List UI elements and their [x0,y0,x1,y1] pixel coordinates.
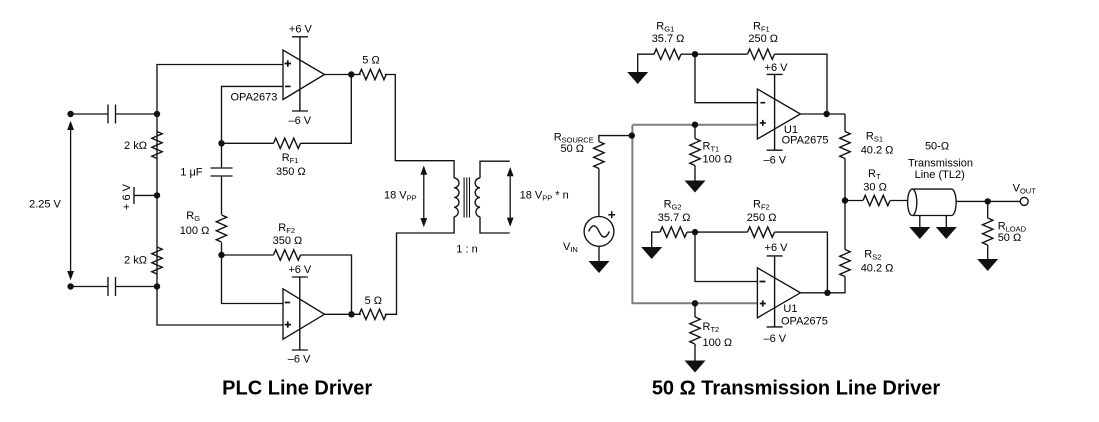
resistor RF2 wire right [695,232,827,293]
ground RLOAD [977,259,998,271]
node RSOURCE [629,132,635,138]
resistor RLOAD [983,201,993,259]
svg-text:PLC Line Driver: PLC Line Driver [222,377,372,399]
svg-text:–6 V: –6 V [288,353,311,365]
transformer T1 secondary winding [475,178,480,217]
wire minus input U1a [695,54,757,102]
resistor RT1 [690,125,700,181]
svg-text:18 VPP: 18 VPP [384,189,417,202]
wire output U1a [800,113,845,115]
svg-text:RF2: RF2 [278,222,295,235]
svg-text:VIN: VIN [563,241,578,254]
node RS1-RT [842,197,848,203]
ground RG2 [641,232,662,259]
supply tap +6V bar [134,187,157,204]
node output bottom [348,311,354,317]
op-amp OPA2673 top [283,37,325,111]
ground RG1 [627,54,654,84]
wire minus input top opamp [222,86,284,143]
op-amp U1 OPA2675 lower [757,256,800,327]
wire output node to feedback [325,74,361,76]
svg-text:50 Ω: 50 Ω [998,232,1022,244]
svg-text:RG: RG [186,210,200,223]
annotation arrow 2.25V [67,121,74,280]
svg-text:RG1: RG1 [656,21,674,34]
svg-text:250 Ω: 250 Ω [747,212,777,224]
node dots [67,51,991,317]
wire secondary top [480,161,510,178]
resistor 2k-top [152,132,162,159]
wire cap to bus [116,113,158,115]
svg-text:1 μF: 1 μF [180,167,203,179]
wire plus input U1a [632,124,757,126]
source VIN [584,211,615,246]
op-amp U1 OPA2675 upper [757,74,800,150]
wire RG to node [221,243,223,256]
node +6V tap [154,192,160,198]
svg-text:+6 V: +6 V [765,242,789,254]
wire 5ohm to transformer primary bottom [385,217,454,314]
resistor RT2 [690,303,700,360]
svg-text:RT2: RT2 [703,321,720,334]
ground TL2 left [909,216,930,239]
node output U1a [823,111,829,117]
wire 5ohm to transformer primary top [385,75,454,179]
svg-text:40.2 Ω: 40.2 Ω [861,144,894,156]
wire RSOURCE top [599,136,632,142]
wire RSOURCE to source [598,169,600,217]
node RG2-RF2 [692,229,698,235]
resistor RT wire [845,200,863,202]
node RF2 junction [218,252,224,258]
wire RG2 to node [687,231,695,233]
wire secondary bottom [480,217,510,233]
svg-text:5 Ω: 5 Ω [362,55,379,67]
svg-text:Line (TL2): Line (TL2) [915,169,965,181]
ground VIN [589,246,610,273]
wire output bottom opamp [325,313,361,315]
resistor RF2 [274,250,301,260]
svg-text:2 kΩ: 2 kΩ [124,140,147,152]
annotation arrow 18Vpp*n secondary [507,167,514,227]
node output U1b [824,290,830,296]
svg-text:Transmission: Transmission [908,157,973,169]
resistor RG1 [654,49,681,59]
svg-text:250 Ω: 250 Ω [748,33,778,45]
wire bottom-left input row [71,286,108,288]
svg-text:OPA2675: OPA2675 [782,134,829,146]
resistor RG2 [660,227,687,237]
svg-text:OPA2675: OPA2675 [781,316,828,328]
svg-text:100 Ω: 100 Ω [703,154,733,166]
resistor RF1 wire [695,54,827,114]
resistor 5ohm top [359,69,386,79]
transformer T1 primary winding [454,178,459,217]
svg-text:50 Ω Transmission Line Driver: 50 Ω Transmission Line Driver [652,377,941,399]
svg-text:–6 V: –6 V [763,333,786,345]
svg-text:–6 V: –6 V [288,115,311,127]
resistor RF2 right [748,227,775,237]
node cap-bus bottom [154,283,160,289]
node VOUT-RLOAD [985,198,991,204]
svg-text:RT: RT [868,168,881,181]
svg-text:50-Ω: 50-Ω [925,141,949,153]
wire RT to TL2 [890,200,908,202]
svg-text:RF1: RF1 [753,21,770,34]
terminal VOUT [1020,197,1028,205]
svg-text:OPA2673: OPA2673 [231,92,278,104]
svg-text:2.25 V: 2.25 V [29,199,61,211]
resistor RF2 wire [222,255,352,314]
resistor RF1 right [748,49,775,59]
wire left bus [632,125,757,303]
resistor RS1 [840,114,850,201]
svg-text:RS1: RS1 [866,130,883,143]
svg-text:1 : n: 1 : n [456,244,477,256]
resistor RS2 [800,201,850,293]
wire cap to bus [116,286,158,288]
svg-text:RS2: RS2 [864,249,881,262]
wire to 1uF [221,143,223,168]
node plus U1b [692,300,698,306]
svg-text:30 Ω: 30 Ω [863,181,887,193]
wire TL2 to VOUT [956,200,1020,202]
wire minus input bottom opamp [222,255,284,304]
svg-text:100 Ω: 100 Ω [703,337,733,349]
capacitor C-top-left [108,105,116,124]
svg-text:RF2: RF2 [753,199,770,212]
svg-text:+6 V: +6 V [289,24,313,36]
svg-text:VOUT: VOUT [1013,182,1037,195]
resistor RG [216,215,226,242]
svg-text:RG2: RG2 [664,199,682,212]
svg-text:RT1: RT1 [703,141,720,154]
resistor 5ohm bottom [359,309,386,319]
svg-text:U1: U1 [783,303,797,315]
transmission line TL2 cylinder [908,189,956,215]
node RG1-RF1 [692,51,698,57]
resistor 2k-bottom [152,247,162,274]
wire top-left input row [71,113,108,115]
resistor RT [863,195,890,205]
svg-text:+6 V: +6 V [288,264,312,276]
svg-text:350 Ω: 350 Ω [273,235,303,247]
wire 1uF to RG [221,176,223,215]
resistor RF1 [274,138,301,148]
node bottom-left [67,283,73,289]
node top-left [67,111,73,117]
svg-text:+ 6 V: + 6 V [121,183,133,210]
svg-text:350 Ω: 350 Ω [276,166,306,178]
node RF1 junction [218,140,224,146]
svg-text:–6 V: –6 V [763,154,786,166]
svg-text:40.2 Ω: 40.2 Ω [861,263,894,275]
wire left bus with +input top opamp [157,65,283,326]
resistor RF1 wire [222,75,352,144]
ground RT2 [685,361,706,373]
wire minus input U1b [695,232,757,281]
transformer T1 core [464,177,469,217]
svg-text:100 Ω: 100 Ω [180,225,210,237]
capacitor 1uF [211,168,233,176]
node output top [348,71,354,77]
svg-text:+6 V: +6 V [765,62,789,74]
ground TL2 right [936,216,957,239]
capacitor C-bottom-left [108,277,116,296]
wire RG1 to node [681,53,695,55]
svg-text:35.7 Ω: 35.7 Ω [652,33,685,45]
node plus U1a [692,122,698,128]
ground RT1 [685,181,706,193]
annotation arrow 18Vpp primary [420,166,427,228]
op-amp OPA2673 bottom [283,277,325,350]
svg-text:RF1: RF1 [282,152,299,165]
node cap-bus top [154,111,160,117]
svg-text:2 kΩ: 2 kΩ [124,255,147,267]
resistor RSOURCE [594,142,604,169]
svg-text:50 Ω: 50 Ω [561,143,585,155]
svg-text:5 Ω: 5 Ω [365,295,382,307]
svg-text:35.7 Ω: 35.7 Ω [658,212,691,224]
svg-text:18 VPP * n: 18 VPP * n [520,190,569,203]
